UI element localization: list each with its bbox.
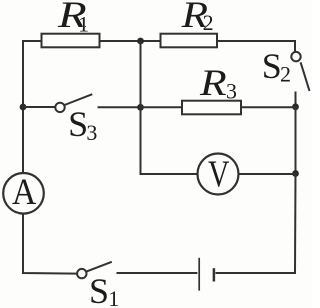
wire right vertical lower segment to bottom-right corner bbox=[216, 174, 296, 274]
wire S3 fixed contact to middle node bbox=[98, 106, 141, 108]
wire middle node to R3 bbox=[141, 106, 183, 108]
ammeter A circle bbox=[3, 173, 44, 214]
svg-text:S: S bbox=[262, 46, 282, 86]
wire right vertical middle segment bbox=[295, 107, 297, 174]
switch S3 blade (open) bbox=[65, 94, 93, 105]
switch S2 blade (open) bbox=[301, 62, 310, 91]
wire middle vertical down to voltmeter row bbox=[141, 41, 198, 174]
svg-text:3: 3 bbox=[226, 78, 237, 103]
wire top-left (node to R1 left lead) bbox=[23, 41, 42, 42]
wire S1 to bottom-left corner and up bbox=[23, 214, 77, 274]
node junction right upper (S2/R3) bbox=[292, 103, 299, 110]
svg-text:S: S bbox=[68, 104, 88, 144]
wire voltmeter to right node bbox=[239, 173, 296, 175]
switch S3 pivot circle bbox=[55, 103, 64, 112]
wire node to S3 pivot bbox=[23, 106, 55, 108]
node junction middle (S3/R3/middle branch) bbox=[137, 104, 144, 111]
svg-text:S: S bbox=[89, 271, 109, 308]
voltmeter V circle bbox=[198, 154, 239, 195]
wire left vertical (top node down to ammeter) bbox=[22, 41, 24, 173]
wire R1 to R2 through node bbox=[100, 40, 161, 42]
battery negative plate (short) bbox=[213, 268, 216, 281]
resistor R3 bbox=[182, 101, 241, 115]
switch S2 pivot circle bbox=[291, 52, 300, 61]
svg-text:2: 2 bbox=[280, 61, 291, 86]
svg-text:A: A bbox=[12, 170, 37, 212]
switch S1 pivot circle bbox=[77, 269, 86, 278]
resistor R1 bbox=[42, 34, 100, 48]
svg-text:3: 3 bbox=[86, 120, 97, 145]
switch S1 blade (open) bbox=[86, 262, 112, 272]
wire S2 lower terminal bbox=[295, 92, 297, 108]
svg-text:V: V bbox=[208, 154, 230, 195]
wire R3 to right node bbox=[241, 106, 296, 108]
battery positive plate (long) bbox=[198, 258, 200, 291]
node junction top (R1/R2/middle branch) bbox=[137, 38, 144, 45]
wire battery to S1 fixed contact bbox=[117, 272, 198, 274]
node junction right lower (voltmeter) bbox=[292, 170, 299, 177]
svg-text:1: 1 bbox=[108, 286, 119, 308]
svg-text:R: R bbox=[199, 62, 227, 103]
svg-text:2: 2 bbox=[203, 10, 214, 35]
svg-text:1: 1 bbox=[78, 11, 89, 36]
node junction left (S3 branch) bbox=[20, 104, 27, 111]
resistor R2 bbox=[161, 34, 218, 48]
wire R2 to top-right corner bbox=[217, 41, 295, 52]
